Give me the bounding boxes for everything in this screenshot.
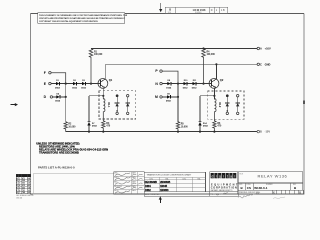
wire D9 to vertical bbox=[171, 96, 178, 98]
wire D1 to junction E/F bbox=[60, 83, 73, 85]
svg-text:CORPORATION: CORPORATION bbox=[211, 187, 238, 190]
wire D11 to Q2 base bbox=[196, 83, 209, 85]
relay box RL1 (dashed) bbox=[99, 91, 136, 119]
junction node E/F/D bbox=[65, 83, 67, 85]
junction R5-bus bbox=[177, 131, 179, 133]
junction emitter/clamp right bbox=[213, 95, 215, 97]
svg-text:TRANSISTOR & DIODE CONVERSION: TRANSISTOR & DIODE CONVERSION CHART bbox=[147, 174, 192, 177]
svg-text:Q2: Q2 bbox=[220, 78, 224, 82]
svg-text:100,000: 100,000 bbox=[94, 54, 103, 56]
junction R4 on +10V rail bbox=[202, 47, 204, 49]
svg-text:10,000: 10,000 bbox=[68, 127, 76, 129]
relay contact 1 (right box) bbox=[225, 95, 230, 115]
diode D7 D664 bbox=[87, 122, 97, 128]
printed circuit rev strip bbox=[238, 190, 303, 198]
svg-text:CIRCUITS ARE PROPRIETARY IN NA: CIRCUITS ARE PROPRIETARY IN NATURE AND S… bbox=[39, 17, 125, 20]
sheet border frame bbox=[31, 14, 305, 195]
svg-text:DEC FORM NO.: DEC FORM NO. bbox=[145, 194, 160, 196]
Q1 collector wire up to GND rail bbox=[104, 64, 106, 79]
notice box bbox=[38, 13, 128, 23]
terminal B -15V bbox=[257, 130, 270, 134]
junction M on vertical bbox=[177, 96, 179, 98]
junction R1-base bbox=[90, 83, 92, 85]
wire P to junction bbox=[162, 71, 178, 84]
relay contact 1 (left box) bbox=[115, 95, 120, 115]
top drawing-number strip bbox=[165, 7, 227, 14]
transistor Q1 bbox=[98, 78, 113, 88]
svg-text:THIS SCHEMATIC IS FURNISHED ON: THIS SCHEMATIC IS FURNISHED ONLY FOR TES… bbox=[39, 14, 128, 17]
wire junction down to R2 bbox=[65, 84, 67, 122]
wire D8 to junction P/N bbox=[171, 83, 183, 85]
svg-text:+10V: +10V bbox=[265, 47, 271, 51]
bottom alignment arrow bbox=[159, 196, 162, 203]
terminal A +10V bbox=[257, 47, 271, 51]
relay contact 2 (left box) bbox=[125, 95, 130, 115]
svg-text:DEC3639B: DEC3639B bbox=[145, 181, 157, 184]
DEC logo block bbox=[210, 172, 239, 192]
svg-text:1/65 100: 1/65 100 bbox=[16, 197, 22, 199]
wire D to D4 bbox=[53, 96, 57, 98]
svg-text:GND: GND bbox=[265, 62, 271, 66]
svg-text:2N3639B: 2N3639B bbox=[160, 181, 170, 184]
terminal C GND bbox=[257, 62, 270, 66]
wire jog to clamp diode bbox=[89, 95, 103, 97]
relay box RL2 (dashed) bbox=[208, 91, 244, 119]
svg-text:d: d bbox=[211, 174, 213, 178]
junction D7-bus bbox=[88, 131, 90, 133]
diode D3 D662 bbox=[81, 80, 87, 89]
-15V bus bbox=[66, 131, 257, 133]
wire jog to clamp diode D14 bbox=[200, 95, 214, 97]
svg-text:10,000: 10,000 bbox=[181, 127, 189, 129]
notes: unless otherwise indicated bbox=[36, 141, 108, 154]
svg-text:B: B bbox=[299, 192, 301, 195]
relay coil RL2 bbox=[214, 96, 221, 119]
resistor R3 470 bbox=[102, 119, 105, 132]
svg-text:M: M bbox=[155, 95, 158, 99]
svg-text:1/2-W #108: 1/2-W #108 bbox=[193, 9, 207, 12]
wire D2 to D3 bbox=[77, 83, 82, 85]
terminal M bbox=[155, 95, 162, 99]
title cell RELAY W136 bbox=[238, 172, 303, 183]
svg-text:RL2: RL2 bbox=[218, 103, 221, 108]
diode D4 D664 bbox=[55, 92, 61, 102]
resistor R1 bbox=[89, 49, 93, 84]
scribble row under logo bbox=[210, 192, 238, 197]
junction R3-bus bbox=[102, 131, 104, 133]
wire D3 to Q1 base bbox=[86, 83, 98, 85]
svg-text:PARTS LIST A-PL-W136-0-0: PARTS LIST A-PL-W136-0-0 bbox=[38, 165, 75, 169]
diode D11 D662 bbox=[192, 80, 198, 89]
relay contact 2 (right box) bbox=[235, 95, 240, 115]
resistor R2 10,000 bbox=[64, 122, 67, 132]
junction D on vertical bbox=[65, 96, 67, 98]
svg-text:A: A bbox=[260, 47, 262, 51]
wire down to D7 bbox=[88, 96, 90, 122]
revision table (bottom left) bbox=[16, 174, 33, 199]
junction R4-base bbox=[202, 83, 204, 85]
svg-text:F: F bbox=[44, 71, 46, 75]
svg-text:C: C bbox=[260, 62, 262, 66]
svg-text:D664: D664 bbox=[145, 185, 151, 188]
svg-text:SIZE: SIZE bbox=[168, 12, 171, 14]
transistor Q2 bbox=[209, 78, 224, 88]
svg-text:D662: D662 bbox=[145, 189, 151, 192]
relay coil RL1 bbox=[103, 96, 110, 119]
wire F to junction bbox=[51, 73, 66, 84]
GND rail bbox=[105, 63, 257, 65]
resistor R5 10,000 bbox=[176, 122, 179, 132]
svg-text:CS: CS bbox=[247, 186, 251, 190]
terminal P bbox=[155, 69, 162, 73]
svg-text:TITLE: TITLE bbox=[239, 173, 243, 175]
wire D10 to D11 bbox=[187, 83, 192, 85]
wire M to D9 bbox=[162, 96, 167, 98]
svg-text:B: B bbox=[260, 130, 262, 134]
wire D7 to bus bbox=[88, 126, 90, 132]
svg-text:1N645: 1N645 bbox=[160, 185, 168, 188]
bottom strip under chart bbox=[144, 192, 210, 197]
diode D2 D662 bbox=[72, 80, 78, 89]
resistor R4 bbox=[202, 49, 206, 84]
Q2 emitter wire down bbox=[213, 88, 215, 100]
diode D1 D664 bbox=[55, 80, 61, 89]
Q2 collector wire up to GND rail bbox=[215, 64, 217, 79]
terminal E bbox=[44, 82, 51, 86]
terminal N bbox=[155, 82, 162, 86]
svg-text:NUMBER: NUMBER bbox=[195, 12, 202, 14]
svg-text:D: D bbox=[211, 9, 213, 12]
wire D4 to vertical bbox=[60, 96, 65, 98]
svg-text:TRANSISTORS ARE DEC3639B: TRANSISTORS ARE DEC3639B bbox=[39, 150, 79, 154]
wire N to D8 bbox=[162, 83, 167, 85]
diode D9 D664 bbox=[166, 93, 172, 102]
svg-text:1N3606: 1N3606 bbox=[160, 189, 169, 192]
svg-text:t: t bbox=[227, 174, 228, 178]
svg-text:COPYRIGHT 1969 BY DIGITAL EQUI: COPYRIGHT 1969 BY DIGITAL EQUIPMENT CORP… bbox=[39, 20, 98, 23]
left alignment arrow bbox=[11, 103, 18, 106]
svg-text:-15V: -15V bbox=[265, 130, 271, 134]
top alignment arrow bbox=[159, 3, 162, 12]
terminal F bbox=[44, 71, 51, 75]
number row size/code/number/rev bbox=[238, 183, 303, 190]
wire D14 to bus bbox=[199, 126, 201, 132]
diode D14 D664 bbox=[198, 122, 208, 128]
svg-text:W136-0-1: W136-0-1 bbox=[254, 186, 268, 190]
svg-text:3-9: 3-9 bbox=[28, 192, 31, 194]
junction D14-bus bbox=[199, 131, 201, 133]
transistor & diode conversion chart bbox=[144, 172, 205, 192]
junction Q2 collector on GND rail bbox=[215, 63, 217, 65]
diode D10 D662 bbox=[183, 80, 189, 89]
parts list area box bbox=[33, 174, 113, 195]
svg-text:Q1: Q1 bbox=[109, 78, 113, 82]
svg-text:g: g bbox=[219, 174, 221, 178]
svg-text:1 B: 1 B bbox=[221, 9, 225, 12]
junction emitter/clamp bbox=[102, 95, 104, 97]
svg-text:RL1: RL1 bbox=[107, 103, 110, 108]
junction node P/N/M bbox=[177, 83, 179, 85]
wire junction down to R5 bbox=[177, 84, 179, 122]
svg-text:DEC FORM NO DRB 110: DEC FORM NO DRB 110 bbox=[16, 195, 33, 197]
svg-text:RELAY W136: RELAY W136 bbox=[258, 173, 288, 178]
diode D8 D664 bbox=[166, 80, 172, 89]
Q1 emitter wire down bbox=[102, 88, 104, 100]
resistor R6 470 bbox=[213, 119, 216, 132]
wire down to D14 bbox=[199, 96, 201, 122]
junction R6-bus bbox=[213, 131, 215, 133]
svg-text:B: B bbox=[169, 8, 171, 12]
wire E to D1 bbox=[51, 83, 56, 85]
right border tick bbox=[303, 101, 305, 104]
svg-text:7: 7 bbox=[19, 192, 20, 194]
svg-text:748: 748 bbox=[22, 191, 25, 194]
signoff grid bbox=[114, 172, 145, 194]
+10V rail bbox=[91, 48, 257, 50]
handwriting below title block bbox=[238, 192, 259, 198]
terminal D bbox=[44, 95, 53, 99]
svg-text:a: a bbox=[230, 174, 232, 178]
svg-text:100,000: 100,000 bbox=[207, 54, 216, 56]
